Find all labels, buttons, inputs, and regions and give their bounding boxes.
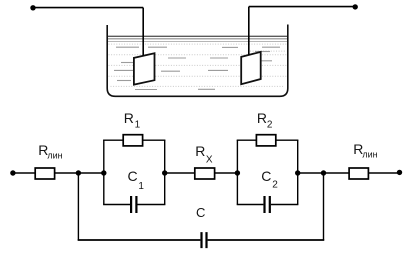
electrolyte liquid short dashes [114,47,280,89]
terminal dot lower-right [397,170,402,175]
wire: Rlin to block 1 [55,172,104,174]
electrode E1 (left plate in cell) [134,53,155,84]
electrolyte liquid shading lines [109,44,287,86]
resistor R1 [123,135,142,146]
node junction (block 1 left) [101,170,106,175]
capacitor C2 [265,196,270,213]
svg-text:1: 1 [138,181,144,192]
node junction (left drop point) [76,170,81,175]
wire: bottom rail right segment [208,239,325,241]
svg-text:R: R [124,110,134,126]
wire: Rx to block 2 [215,172,238,174]
wire: left vertical drop to bottom rail [77,173,79,241]
node junction (block 1 right) [162,170,167,175]
svg-text:C: C [261,168,271,184]
beaker (electrolytic cell vessel) [107,25,288,97]
node junction (block 2 right) [295,170,300,175]
terminal dot top-right [353,4,358,9]
wire: top-right horizontal lead [249,6,355,8]
resistor Rlin (left) [35,168,54,179]
resistor Rx [195,168,215,179]
capacitor C (bottom) [202,232,207,248]
wire: block 2 top branch [237,139,299,141]
svg-text:C: C [128,168,138,184]
terminal dot top-left [30,5,35,10]
electrode E2 (right plate in cell) [241,52,261,84]
wire: block 1 top branch [103,139,165,141]
wire: left electrode vertical lead [142,8,144,56]
wire: left terminal to Rlin [13,172,35,174]
resistor R2 [256,135,275,146]
wire: Rlin right to terminal [368,172,399,174]
wire: block 2 to right drop node [298,172,324,174]
wire: block 2 bottom branch [237,204,299,206]
svg-text:2: 2 [267,119,273,130]
wire: block 1 to Rx [165,172,195,174]
wire: block 1 right edge [164,140,166,204]
svg-text:X: X [206,154,213,165]
svg-text:1: 1 [135,119,141,130]
wire: bottom rail left segment [78,239,201,241]
svg-text:лин: лин [362,149,377,159]
node junction (right drop point) [321,170,326,175]
terminal dot lower-left [10,170,15,175]
wire: right electrode vertical lead [248,7,250,55]
wire: block 1 bottom branch [103,204,165,206]
node junction (block 2 left) [235,170,240,175]
wire: block 2 right edge [297,140,299,204]
capacitor C1 [131,196,136,213]
svg-text:2: 2 [272,180,278,191]
svg-text:лин: лин [47,151,62,161]
svg-text:R: R [195,143,205,159]
wire: node to Rlin right [324,172,350,174]
svg-text:R: R [257,110,267,126]
electrolyte liquid surface [108,36,287,41]
wire: block 1 left edge [103,140,105,204]
wire: right vertical drop to bottom rail [323,173,325,241]
wire: top-left horizontal lead [31,7,144,9]
wire: block 2 left edge [236,140,238,204]
svg-text:C: C [196,205,205,220]
resistor Rlin (right) [349,168,368,179]
